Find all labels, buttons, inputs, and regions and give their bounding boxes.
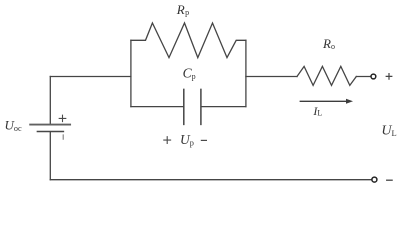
capacitor C_p right plate: [200, 89, 202, 124]
svg-text:IL: IL: [312, 104, 322, 118]
capacitor C_p left plate: [183, 89, 185, 124]
current arrow I_L: [300, 100, 346, 102]
resistor R_p zigzag: [131, 23, 246, 58]
plus sign of U_p polarity: [164, 137, 171, 144]
svg-text:Rp: Rp: [176, 2, 189, 17]
svg-text:Up: Up: [180, 132, 194, 148]
capacitor C_p left wire: [131, 106, 183, 108]
resistor R_o zigzag: [297, 66, 356, 85]
battery plus sign: [59, 115, 66, 121]
positive output terminal circle: [371, 74, 376, 79]
wire: mid-right from RC box to R_o: [246, 76, 297, 78]
wire: RC box right edge: [245, 40, 247, 106]
battery minus tick: [62, 135, 64, 139]
svg-text:Ro: Ro: [322, 36, 335, 51]
svg-text:UL: UL: [381, 124, 396, 139]
svg-text:Uoc: Uoc: [5, 118, 22, 133]
battery U_oc: short negative plate: [37, 131, 63, 133]
svg-text:Cp: Cp: [183, 65, 196, 81]
wire: top-left horizontal from battery branch to RC box: [50, 76, 131, 78]
plus sign at positive terminal: [386, 74, 392, 80]
wire: R_o to positive terminal: [356, 76, 371, 78]
capacitor C_p right wire: [202, 106, 246, 108]
minus sign at negative terminal: [387, 179, 392, 181]
battery U_oc: long positive plate: [30, 124, 70, 126]
wire: RC box left edge: [130, 40, 132, 106]
minus sign of U_p polarity: [201, 139, 206, 141]
wire: bottom rail: [50, 179, 371, 181]
wire: left vertical upper (to battery + plate): [49, 77, 51, 124]
negative output terminal circle: [372, 177, 377, 182]
wire: left vertical lower (battery to bottom rail): [49, 132, 51, 180]
